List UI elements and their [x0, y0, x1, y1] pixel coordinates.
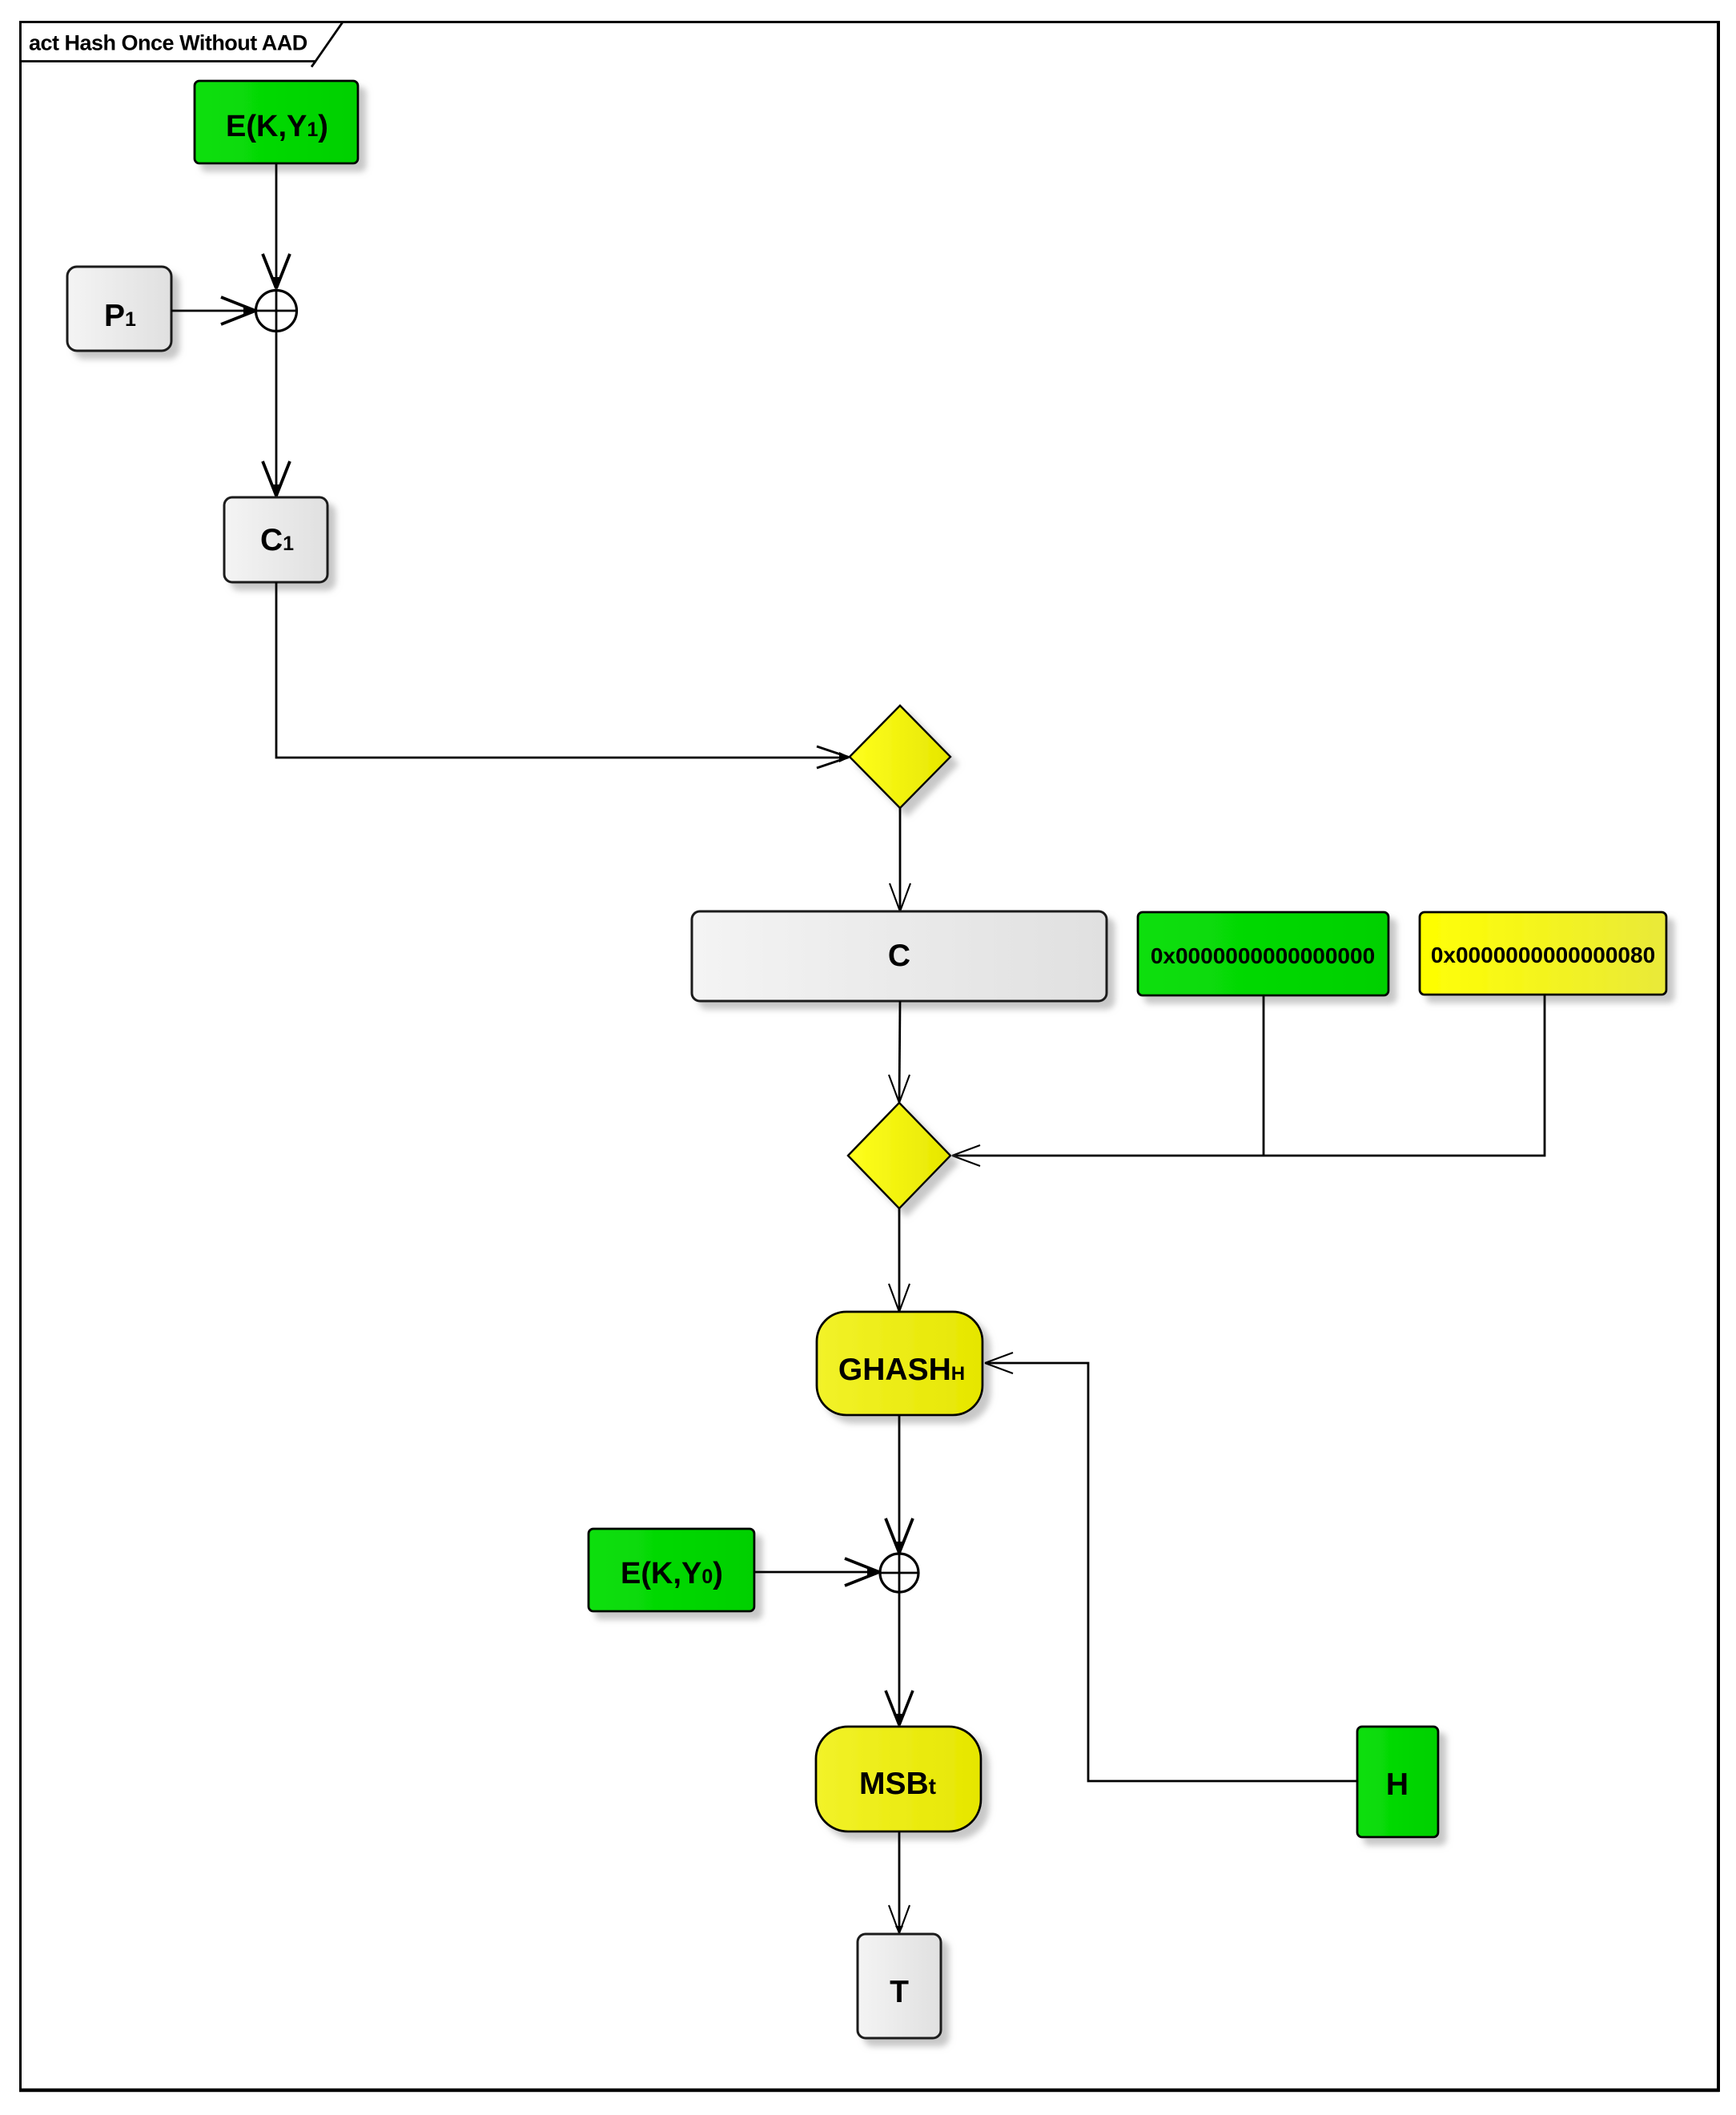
svg-text:T: T [890, 1975, 909, 2009]
wire 0x0000000000000080 down and into D2 [953, 995, 1545, 1156]
wire XOR2 to MSBt [898, 1592, 901, 1725]
arrowhead into GHASH top [889, 1284, 910, 1312]
wire E(K,Y1) to XOR1 [275, 163, 278, 288]
svg-text:MSBt: MSBt [859, 1767, 936, 1801]
object node C [692, 911, 1107, 1001]
arrowhead into C1 top [263, 461, 290, 497]
svg-text:H: H [1386, 1767, 1408, 1802]
wire 0x0000000000000000 down [1263, 995, 1265, 1156]
arrowhead into C top [890, 883, 910, 911]
arrowhead into XOR2 top [886, 1518, 913, 1554]
object node H [1357, 1727, 1438, 1837]
arrowhead into XOR1 left [221, 297, 257, 324]
svg-text:act Hash Once Without AAD: act Hash Once Without AAD [29, 31, 307, 55]
wire MSBt to T [898, 1832, 901, 1932]
wire H feedback to GHASH [986, 1363, 1357, 1781]
object node C1 [224, 497, 328, 582]
wire XOR1 to C1 [275, 331, 278, 496]
svg-text:0x0000000000000000: 0x0000000000000000 [1151, 943, 1375, 968]
arrowhead into T top [889, 1905, 910, 1934]
xor node XOR2 [880, 1554, 918, 1592]
wire P1 to XOR1 [171, 310, 255, 312]
arrowhead into D2 right vertex [952, 1145, 980, 1166]
wire E(K,Y0) to XOR2 [754, 1571, 878, 1574]
object node P1 [67, 267, 171, 351]
object node 0x0000000000000080 [1420, 912, 1666, 995]
object node T [858, 1934, 941, 2038]
wire C1 to decision D1 [276, 582, 847, 758]
arrowhead into GHASH right [985, 1353, 1013, 1373]
svg-text:GHASHH: GHASHH [838, 1353, 965, 1387]
wire C to decision D2 [899, 1001, 900, 1102]
title tab [21, 22, 344, 67]
arrowhead into MSBt top [886, 1691, 913, 1727]
xor node XOR1 [256, 291, 297, 332]
arrowhead into XOR1 top [263, 254, 290, 290]
object node 0x0000000000000000 [1138, 912, 1388, 995]
wire D2 to GHASH [898, 1208, 901, 1311]
svg-text:C: C [888, 939, 910, 973]
arrowhead into XOR2 left [845, 1558, 881, 1586]
wire GHASH to XOR2 [898, 1415, 901, 1552]
arrowhead into D2 top [889, 1075, 910, 1103]
decision D2 [848, 1103, 950, 1208]
activity GHASH_H [817, 1312, 983, 1415]
activity E(K,Y0) [589, 1529, 754, 1611]
arrowhead into D1 left vertex [817, 746, 850, 768]
svg-text:0x0000000000000080: 0x0000000000000080 [1431, 943, 1655, 967]
activity E(K,Y1) [195, 81, 358, 163]
activity MSBt [816, 1727, 981, 1832]
wire D1 to C [899, 808, 902, 911]
decision D1 [850, 706, 950, 808]
